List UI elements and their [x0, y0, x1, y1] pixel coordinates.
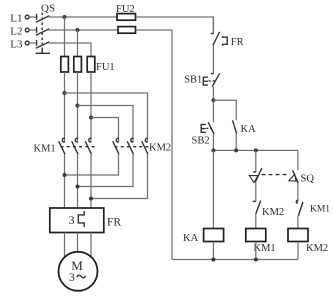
fuse FU2 element 2 — [118, 27, 136, 34]
wire control line FR contact top — [212, 17, 214, 34]
pushbutton SB1 actuator E — [203, 77, 208, 86]
wire FR box to motor phase A — [64, 233, 66, 261]
wire junction row corner to SQ NO contact — [297, 150, 299, 170]
node L2 terminal circle — [25, 28, 29, 32]
relay contact KA normally-open self-holding — [233, 120, 237, 134]
wire SB2 to junction row — [212, 134, 214, 150]
svg-text:SQ: SQ — [301, 173, 315, 184]
contactor KM1 normally-open contact — [296, 200, 303, 215]
contactor KM1 linkage dashes — [61, 146, 95, 148]
motor M circle — [59, 252, 98, 291]
wire L3 terminal to QS pole 3 — [29, 42, 36, 44]
wire FR box to motor phase B — [77, 233, 79, 256]
fuse FU1 element 1 — [61, 57, 69, 73]
svg-text:KM2: KM2 — [262, 207, 284, 218]
wire KM2 contact 3 crossover to phase C — [91, 154, 148, 198]
svg-text:KM1: KM1 — [254, 243, 276, 254]
wire KM1 contact to KM2 coil — [297, 216, 299, 229]
contactor KM1 main contact 1 — [59, 138, 65, 154]
wire branch phase C to KM2 contact 1 — [91, 118, 119, 142]
node junction dot phase B — [76, 28, 80, 32]
svg-text:KM1: KM1 — [310, 205, 330, 215]
wire KM2 interlock to KM1 coil — [255, 214, 257, 229]
switch QS linkage dashed line — [41, 13, 43, 50]
svg-text:KM2: KM2 — [306, 243, 328, 254]
wire KA coil to bottom bus — [212, 242, 214, 260]
wire KM1 contact 3 to FR box — [90, 154, 92, 208]
wire FR box to motor phase C — [90, 233, 92, 261]
contactor coil KM2 — [288, 229, 308, 242]
svg-text:KM1: KM1 — [34, 143, 56, 154]
wire KM2 contact 1 crossover to phase A — [65, 154, 119, 175]
limit switch SQ normally-open contact — [289, 170, 299, 183]
pushbutton SB1 normally-closed stop button — [211, 73, 220, 87]
wire phase B drop to FU1 — [77, 30, 79, 57]
wire junction row horizontal — [213, 149, 298, 151]
wire QS pole1 to FU2 fuse1 — [49, 16, 118, 18]
svg-text:SB2: SB2 — [192, 135, 210, 146]
svg-text:L3: L3 — [10, 38, 23, 50]
node bottom bus dot KM1 — [254, 258, 258, 262]
wire QS pole3 to phase C drop — [49, 43, 92, 57]
svg-text:QS: QS — [41, 2, 55, 14]
wire phase A FU1 to KM1 contact 1 — [64, 72, 66, 142]
thermal relay FR heater element symbol — [78, 211, 84, 227]
node junction dot main line — [211, 148, 215, 152]
wire phase B FU1 to KM1 contact 2 — [77, 72, 79, 142]
wire L1 terminal to QS pole 1 — [29, 16, 36, 18]
svg-text:FR: FR — [107, 217, 121, 229]
limit switch SQ normally-closed contact — [249, 168, 262, 183]
contactor KM1 main contact 2 — [72, 138, 78, 154]
fuse FU1 element 2 — [74, 57, 82, 73]
node crossover dot phase A — [63, 173, 67, 177]
switch QS handle bar — [36, 52, 51, 54]
wire KM1 contact 2 to FR box — [77, 154, 79, 208]
switch QS pole 2 — [36, 27, 50, 36]
switch QS pole 1 — [36, 14, 50, 22]
contactor KM2 main contact 3 — [142, 138, 148, 154]
wire bottom bus — [172, 259, 298, 261]
thermal relay FR heater box — [50, 208, 104, 233]
wire QS pole2 to FU2 fuse2 — [49, 29, 119, 31]
contactor KM1 main contact 3 — [85, 138, 91, 154]
svg-text:KM2: KM2 — [149, 142, 171, 153]
fuse FU1 element 3 — [87, 57, 95, 73]
node L1 terminal circle — [25, 15, 29, 19]
node branch dot phase C to KM2 — [89, 116, 93, 120]
contactor KM2 normally-closed interlock contact — [253, 201, 261, 214]
node branch dot phase A to KM2 — [63, 91, 67, 95]
contactor KM2 linkage dashes — [115, 146, 150, 148]
wire FU2 fuse1 to control line corner — [136, 17, 214, 34]
relay coil KA — [204, 229, 224, 242]
svg-text:KA: KA — [183, 233, 199, 244]
wire SQ branch down — [255, 150, 257, 172]
svg-text:FR: FR — [231, 37, 244, 48]
fuse FU2 element 1 — [117, 14, 136, 21]
node start branch dot — [211, 98, 215, 102]
pushbutton SB2 actuator E — [201, 124, 206, 133]
wire phase C FU1 to KM1 contact 3 — [90, 72, 92, 142]
wire branch phase B to KM2 contact 2 — [78, 106, 134, 142]
wire L2 terminal to QS pole 2 — [29, 29, 36, 31]
pushbutton SB2 normally-open start button — [208, 122, 214, 134]
wire KA contact to junction row — [235, 134, 237, 151]
svg-text:KA: KA — [241, 124, 257, 135]
wire KM2 coil to bottom bus — [297, 242, 299, 260]
wire branch to KA contact — [213, 100, 236, 120]
pushbutton SB1 actuator dashed link — [209, 80, 216, 82]
svg-text:L1: L1 — [10, 12, 22, 24]
wire node to SB2 — [212, 100, 214, 122]
svg-text:FU1: FU1 — [96, 62, 115, 73]
node junction dot SQ branch — [254, 148, 258, 152]
limit switch SQ linkage dashed line — [262, 174, 290, 176]
relay contact FR normally-closed in control circuit — [211, 32, 220, 46]
svg-text:SB1: SB1 — [184, 74, 202, 85]
switch QS pole 3 — [36, 40, 50, 49]
node L3 terminal circle — [25, 41, 29, 45]
wire SQ NO to KM1 interlock contact — [297, 183, 299, 202]
contactor KM2 main contact 1 — [113, 138, 119, 154]
node bottom bus dot KA — [211, 258, 215, 262]
wire FU2 fuse2 to bottom control bus — [136, 30, 173, 260]
wire KM2 contact 2 crossover to phase B — [78, 154, 134, 186]
switch QS handle stem — [41, 50, 43, 54]
wire KM1 contact 1 to FR box — [64, 154, 66, 208]
svg-text:L2: L2 — [10, 25, 22, 37]
node junction dot phase A — [63, 15, 67, 19]
thermal relay FR contact heater mark — [223, 36, 228, 46]
wire SB1 to start branch node — [212, 87, 214, 100]
node crossover dot phase C — [89, 197, 93, 201]
wire KM1 coil to bottom bus — [255, 242, 257, 260]
wire phase A drop to FU1 — [64, 17, 66, 57]
svg-text:3: 3 — [69, 213, 75, 227]
svg-text:3: 3 — [69, 272, 75, 284]
wire FR contact to SB1 — [212, 45, 214, 73]
svg-text:M: M — [71, 258, 83, 273]
wire SQ NC to KM2 interlock contact — [255, 183, 257, 202]
wire branch phase A to KM2 contact 3 — [65, 93, 148, 142]
node junction dot KA branch — [234, 148, 238, 152]
node branch dot phase B to KM2 — [76, 104, 80, 108]
pushbutton SB2 actuator dashed link — [206, 127, 210, 129]
wire junction row to KA coil — [212, 150, 214, 228]
contactor coil KM1 — [246, 229, 266, 242]
contactor KM2 main contact 2 — [127, 138, 133, 154]
node crossover dot phase B — [76, 185, 80, 189]
